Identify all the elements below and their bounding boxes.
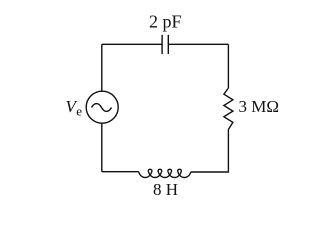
svg-text:e: e	[76, 104, 82, 119]
svg-text:2 pF: 2 pF	[149, 11, 182, 31]
svg-text:3 MΩ: 3 MΩ	[239, 97, 280, 116]
svg-text:8 H: 8 H	[153, 180, 178, 199]
